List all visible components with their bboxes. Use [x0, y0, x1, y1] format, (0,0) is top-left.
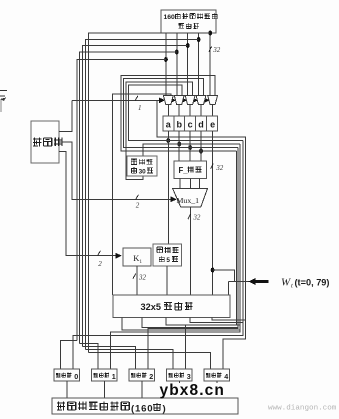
wire: b down to bottom adder 1	[111, 144, 241, 369]
block: constant K1	[123, 248, 151, 266]
block: output adder 2	[129, 369, 155, 381]
node: register d output branch	[199, 149, 203, 154]
wire: adder lower route	[190, 318, 243, 323]
block: F function	[174, 161, 207, 179]
wire: d branch to right bus	[201, 150, 236, 152]
wire: a down to bottom adder 0	[73, 141, 243, 370]
block: 32x5 adder	[113, 295, 230, 318]
svg-text:3: 3	[187, 372, 191, 381]
width tick 32 (e path)	[211, 163, 214, 168]
wire: adder 1 to output buffer	[103, 381, 105, 398]
block: register row a b c d e	[163, 116, 218, 131]
wire: adder lower route	[212, 318, 246, 321]
svg-text:1: 1	[112, 372, 116, 381]
wire: a branch to right bus	[168, 140, 243, 142]
mux Me (2:1 multiplexer above register e)	[208, 96, 218, 105]
node: H1 tap	[175, 50, 179, 55]
wire: adder 4 to output buffer	[216, 381, 218, 398]
block: output adder 0	[54, 369, 80, 381]
block: rotate left 5	[153, 244, 182, 266]
arrowhead into Mux_1	[171, 196, 177, 202]
svg-text:32: 32	[192, 214, 201, 222]
arrowhead into mux a	[159, 97, 165, 103]
svg-text:ybx8.cn: ybx8.cn	[160, 382, 225, 399]
svg-text:W: W	[281, 277, 291, 289]
wire: select chain d to e	[204, 99, 207, 101]
mux Mb (2:1 multiplexer above register b)	[174, 96, 184, 105]
block: output adder 1	[92, 369, 118, 381]
svg-text:): )	[163, 403, 166, 414]
svg-text:5: 5	[166, 257, 170, 264]
register divider 3	[195, 116, 197, 131]
svg-text:32: 32	[212, 46, 221, 54]
width tick 1 (mux select)	[135, 96, 138, 101]
wire: H2 fan into adder 2	[83, 347, 136, 370]
wire: adder 2 to output buffer	[141, 381, 143, 398]
wire: d down to F function	[200, 131, 202, 161]
register divider 4	[205, 116, 207, 131]
wire: K1 output to adder	[136, 266, 138, 295]
block: 160-bit input data buffer	[161, 10, 216, 33]
wire: F output to Mux_1	[179, 179, 181, 189]
wire: Wt input line	[229, 281, 251, 283]
wire: H3 initial value to bottom adder 3	[86, 40, 199, 350]
wire: rol30 output feedback to mux c	[126, 82, 193, 180]
wire: mux c output to register	[189, 104, 191, 116]
wire: e value line to bottom adder 4	[157, 101, 245, 369]
wire: clipped input fragment at left edge	[0, 90, 7, 92]
wire: mux a output to register	[167, 104, 169, 116]
svg-text:2: 2	[136, 202, 140, 210]
block: rotate left 30	[127, 156, 157, 176]
wire: adder lower route	[122, 318, 240, 331]
svg-text:(160: (160	[131, 403, 153, 414]
wire: rol5 output to adder	[166, 266, 168, 295]
svg-text:c: c	[188, 120, 193, 130]
wire: c branch to right bus	[190, 147, 238, 149]
wire: H1 initial value to bottom adder 1	[80, 52, 177, 344]
width tick 2 (Mux_1 select)	[136, 195, 139, 200]
width tick 2 (K1 select)	[98, 251, 101, 256]
wire: select chain a to b	[172, 99, 174, 101]
wire: buffer output column d	[198, 33, 200, 96]
svg-text:32: 32	[215, 164, 224, 172]
mux Md (2:1 multiplexer above register d)	[196, 96, 206, 105]
block: output data buffer 160-bit	[52, 398, 238, 414]
wire: mux d output to register	[200, 104, 202, 116]
arrowhead into mux e	[203, 97, 209, 103]
svg-text:1: 1	[138, 104, 142, 112]
svg-text:t: t	[291, 283, 293, 290]
watermark ybx8.cn	[158, 383, 242, 398]
register divider 2	[184, 116, 186, 131]
wire: adder lower route	[166, 318, 240, 326]
node: register a output branch	[166, 138, 170, 143]
node: H0 tap	[164, 57, 168, 62]
wire: b to rol30	[143, 144, 179, 156]
mux Mc (2:1 multiplexer above register c)	[185, 96, 195, 105]
wire: buffer output column b	[176, 33, 178, 96]
svg-text:b: b	[176, 120, 182, 130]
svg-text:d: d	[198, 120, 204, 130]
wire: adder lower route	[142, 318, 238, 328]
wire: Wt down into adder	[228, 282, 230, 296]
arrowhead into mux b	[170, 97, 176, 103]
wire: H0 fan into adder 0	[61, 341, 78, 370]
svg-text:2: 2	[149, 372, 153, 381]
wire: c feedback to mux d	[124, 79, 204, 148]
wire: buffer output column c	[187, 33, 189, 96]
wire: F output to Mux_1	[190, 179, 192, 189]
node: register c output branch	[188, 145, 192, 150]
wire: controller select to K1	[59, 152, 119, 256]
wire: mux b output to register	[178, 104, 180, 116]
mux Ma (2:1 multiplexer above register a)	[163, 96, 173, 105]
arrowhead into K1	[116, 253, 122, 259]
width tick 32 (Mux_1 output)	[188, 214, 191, 219]
node: H2 tap	[186, 43, 190, 48]
wire: buffer output column e	[209, 33, 211, 96]
arrowhead Wt	[248, 278, 256, 285]
wire: adder 0 to output buffer	[66, 381, 68, 398]
wire: c down to bottom adder 2	[148, 148, 238, 370]
arrowhead into mux c	[181, 97, 187, 103]
wire: H0 initial value to bottom adder 0	[77, 60, 166, 341]
wire: H4 fan into adder 4	[89, 353, 211, 370]
svg-text:(t=0, 79): (t=0, 79)	[295, 277, 330, 287]
wire: controller select to Mux_1	[59, 142, 175, 199]
wire: F output to Mux_1	[199, 179, 201, 189]
wire: H1 fan into adder 1	[80, 344, 99, 370]
wire: select chain c to d	[194, 99, 196, 101]
wire: a down to rol5	[167, 131, 169, 244]
block: output adder 4	[204, 369, 230, 381]
svg-text:2: 2	[98, 260, 102, 268]
wire: a feedback to mux b	[129, 85, 182, 140]
bus width tick 32 (buffer output)	[209, 46, 212, 51]
wire: e tap join to Wt line	[213, 270, 235, 282]
wire: c down to F function	[189, 131, 191, 161]
width tick 32 (K1 output)	[133, 273, 136, 278]
node: register b output branch	[177, 142, 181, 147]
wire: mux select line	[72, 99, 163, 101]
wire: 32x5 adder result feedback to mux a	[113, 94, 171, 295]
mux U1 Mux_1	[173, 189, 208, 208]
node: e column tap	[211, 268, 215, 273]
svg-text:Mux_1: Mux_1	[177, 196, 200, 205]
svg-text:160: 160	[164, 14, 176, 21]
wire: H3 fan into adder 3	[86, 350, 173, 370]
svg-text:32x5: 32x5	[141, 302, 161, 312]
node: H4 tap	[208, 31, 212, 36]
svg-text:0: 0	[74, 372, 78, 381]
svg-text:30: 30	[139, 168, 147, 175]
node: H3 tap	[197, 37, 201, 42]
wire: select chain b to c	[183, 99, 185, 101]
block: output adder 3	[167, 369, 193, 381]
wire: Mux_1 output to adder	[190, 207, 192, 295]
wire: adder 3 to output buffer	[178, 381, 180, 398]
wire: H4 initial value to bottom adder 4	[89, 33, 211, 353]
wire: d feedback to mux e	[121, 76, 215, 152]
svg-text:K: K	[133, 254, 139, 263]
wire: b branch to right bus	[179, 143, 240, 145]
wire: e down to 32x5 adder	[212, 131, 214, 295]
Wt input arrow	[252, 280, 269, 283]
svg-text:32: 32	[138, 273, 147, 281]
svg-text:F_: F_	[179, 166, 189, 175]
wire: controller select to mux chain	[59, 100, 72, 131]
arrowhead into mux d	[192, 97, 198, 103]
register divider 1	[173, 116, 175, 131]
wire: H2 initial value to bottom adder 2	[83, 46, 188, 347]
wire: mux e output to register	[212, 104, 214, 116]
svg-text:www.diangon.com: www.diangon.com	[268, 405, 337, 413]
wire: d down to bottom adder 3	[186, 151, 237, 369]
svg-text:e: e	[210, 120, 215, 130]
block: controller	[31, 121, 59, 163]
wire: b down to F function	[178, 131, 180, 161]
svg-text:4: 4	[224, 372, 228, 381]
wire: buffer output column a	[165, 33, 167, 96]
